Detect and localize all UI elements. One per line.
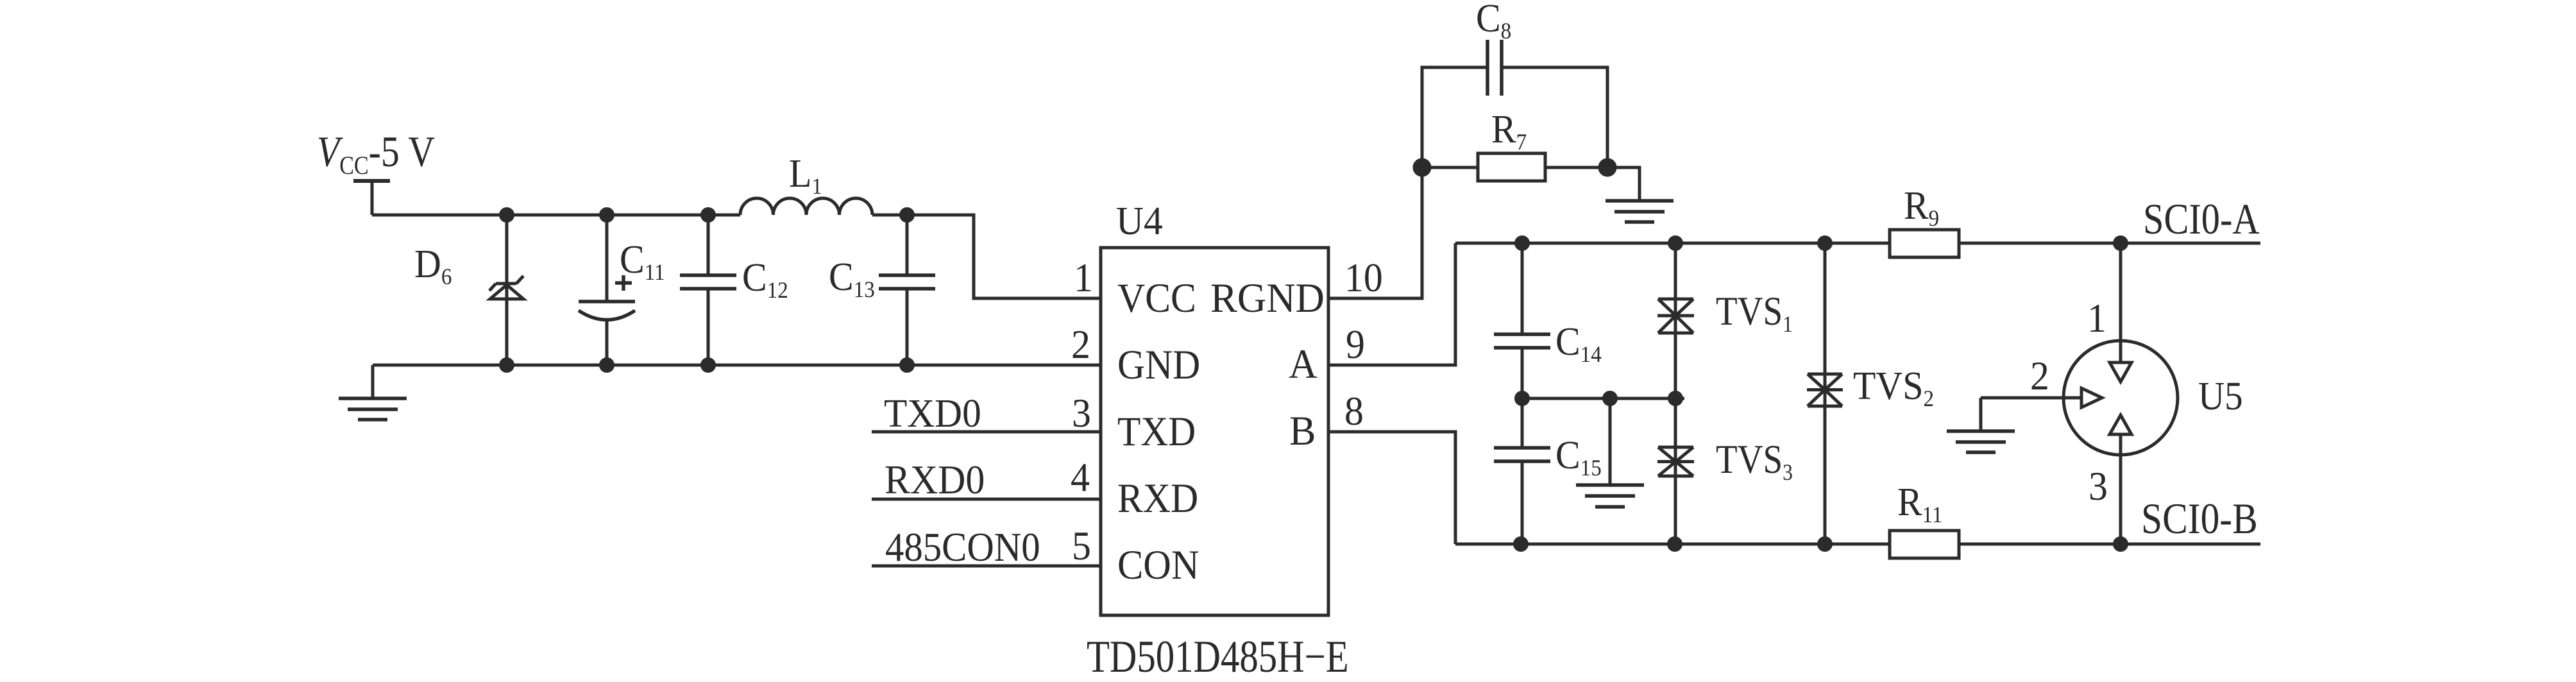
svg-text:C15: C15 [1555, 433, 1602, 481]
svg-text:VCC-5 V: VCC-5 V [317, 128, 435, 180]
node dot U5 pin1 [2113, 235, 2128, 251]
ground (U5 pin 2) [1947, 431, 2015, 452]
ground (left) [339, 398, 407, 420]
power symbol VCC bar [353, 179, 390, 183]
svg-text:C8: C8 [1476, 0, 1511, 44]
TVS1 [1674, 243, 1677, 398]
capacitor C15 [1521, 398, 1524, 448]
svg-text:VCC: VCC [1117, 275, 1196, 321]
node SCI0-B label [2141, 494, 2258, 543]
svg-text:C11: C11 [620, 237, 665, 285]
svg-text:TXD0: TXD0 [884, 391, 981, 436]
wire VCC stub [371, 181, 374, 215]
connector U5 [2063, 341, 2178, 455]
node dot C14 top [1514, 235, 1530, 251]
capacitor C8 [1487, 40, 1502, 96]
svg-text:B: B [1289, 407, 1316, 454]
svg-text:D6: D6 [414, 242, 452, 289]
node dot C13 bottom [899, 357, 915, 373]
node RXD0 label [885, 458, 985, 503]
zener diode D6 [505, 215, 509, 365]
wire VCC rail [372, 214, 740, 217]
svg-text:4: 4 [1071, 456, 1090, 500]
svg-text:TXD: TXD [1117, 409, 1196, 455]
svg-text:C12: C12 [742, 255, 788, 303]
wire U5 pin 1 [2119, 243, 2123, 362]
svg-text:TVS3: TVS3 [1716, 437, 1793, 486]
svg-text:L1: L1 [789, 151, 822, 199]
svg-text:3: 3 [2089, 465, 2108, 509]
svg-text:485CON0: 485CON0 [885, 525, 1040, 570]
svg-text:CON: CON [1117, 541, 1199, 588]
svg-text:C14: C14 [1555, 320, 1602, 367]
wire A pin 9 [1328, 243, 1455, 365]
wire B rail [1455, 543, 2260, 546]
wire mid ground stub [1609, 398, 1612, 485]
node dot C14 mid [1514, 391, 1530, 406]
wire L1 to corner, down to pin 1 [872, 215, 1101, 298]
svg-text:SCI0-A: SCI0-A [2143, 195, 2260, 243]
svg-text:5: 5 [1072, 524, 1091, 569]
svg-text:R11: R11 [1897, 480, 1943, 527]
svg-text:TVS1: TVS1 [1716, 289, 1793, 337]
node dot C15 bottom [1513, 536, 1529, 552]
resistor R11 [1890, 531, 1959, 558]
svg-text:GND: GND [1117, 342, 1200, 388]
svg-text:R9: R9 [1904, 183, 1939, 231]
svg-text:U4: U4 [1116, 198, 1163, 243]
node dot C12 bottom [700, 357, 716, 373]
node dot D6 bottom [499, 357, 514, 373]
IC U4 TD501D485H-E [1101, 248, 1328, 615]
TVS3 [1674, 398, 1677, 544]
wire RGND pin 10 to C8/R7 loop [1328, 67, 1487, 298]
ground (mid) [1576, 485, 1644, 507]
svg-text:1: 1 [2087, 296, 2106, 341]
svg-text:RXD0: RXD0 [885, 458, 985, 503]
node SCI0-A label [2143, 195, 2260, 243]
TVS2 [1824, 243, 1827, 544]
node dot C13 top [899, 207, 915, 223]
svg-text:3: 3 [1072, 391, 1091, 436]
svg-text:TD501D485H−E: TD501D485H−E [1087, 632, 1349, 682]
wire R7 to ground [1607, 167, 1640, 201]
capacitor C13 [906, 215, 909, 275]
svg-text:RXD: RXD [1117, 475, 1198, 522]
node dot TVS mid [1668, 391, 1683, 406]
svg-text:SCI0-B: SCI0-B [2141, 494, 2258, 543]
wire U5 pin 2 [1981, 396, 2081, 400]
ground (R7) [1606, 201, 1674, 222]
svg-text:RGND: RGND [1210, 275, 1325, 321]
wire RXD pin 4 [872, 498, 1101, 501]
node dot C12 top [700, 207, 716, 223]
node junction R7 right [1600, 160, 1615, 175]
pin 1 arrow [2110, 362, 2131, 382]
svg-text:U5: U5 [2198, 373, 2243, 418]
node dot C11 top [599, 207, 614, 223]
wire mid [1522, 397, 1684, 400]
wire TXD pin 3 [872, 431, 1101, 434]
svg-text:A: A [1289, 341, 1318, 388]
pin 3 arrow [2110, 415, 2131, 434]
wire U5 pin2 ground stub [1979, 398, 1983, 431]
node dot U5 pin3 [2113, 536, 2128, 552]
node dot TVS2 bottom [1817, 536, 1833, 552]
resistor R7 [1422, 166, 1478, 169]
capacitor C12 [707, 215, 710, 275]
node 485CON0 label [885, 525, 1040, 570]
svg-text:9: 9 [1346, 323, 1365, 368]
svg-text:2: 2 [1071, 323, 1090, 368]
wire GND rail [373, 364, 1101, 367]
svg-text:TVS2: TVS2 [1853, 364, 1934, 411]
capacitor C14 [1521, 243, 1524, 334]
wire CON pin 5 [872, 565, 1101, 568]
node dot TVS3 bottom [1667, 536, 1682, 552]
node dot TVS1 top [1668, 235, 1683, 251]
node junction R7 left [1414, 160, 1430, 175]
svg-text:8: 8 [1344, 389, 1364, 434]
svg-text:10: 10 [1344, 256, 1383, 301]
svg-text:C13: C13 [829, 255, 875, 302]
svg-text:2: 2 [2030, 354, 2049, 399]
capacitor C11 (electrolytic) [606, 215, 609, 302]
svg-text:1: 1 [1074, 256, 1093, 301]
wire U5 pin 3 [2119, 434, 2123, 544]
node TXD0 label [884, 391, 981, 436]
node dot TVS2 top [1817, 235, 1833, 251]
svg-text:R7: R7 [1491, 107, 1527, 155]
node dot C11 bottom [599, 357, 614, 373]
pin 2 arrow [2081, 388, 2102, 407]
node VCC label [317, 128, 435, 180]
wire B pin 8 [1328, 432, 1455, 544]
node dot D6 top [499, 207, 514, 223]
resistor R9 [1890, 230, 1959, 257]
wire ground stub [371, 365, 375, 398]
wire A rail [1455, 242, 2260, 245]
node dot mid gnd [1602, 391, 1618, 406]
inductor L1 [740, 198, 872, 215]
